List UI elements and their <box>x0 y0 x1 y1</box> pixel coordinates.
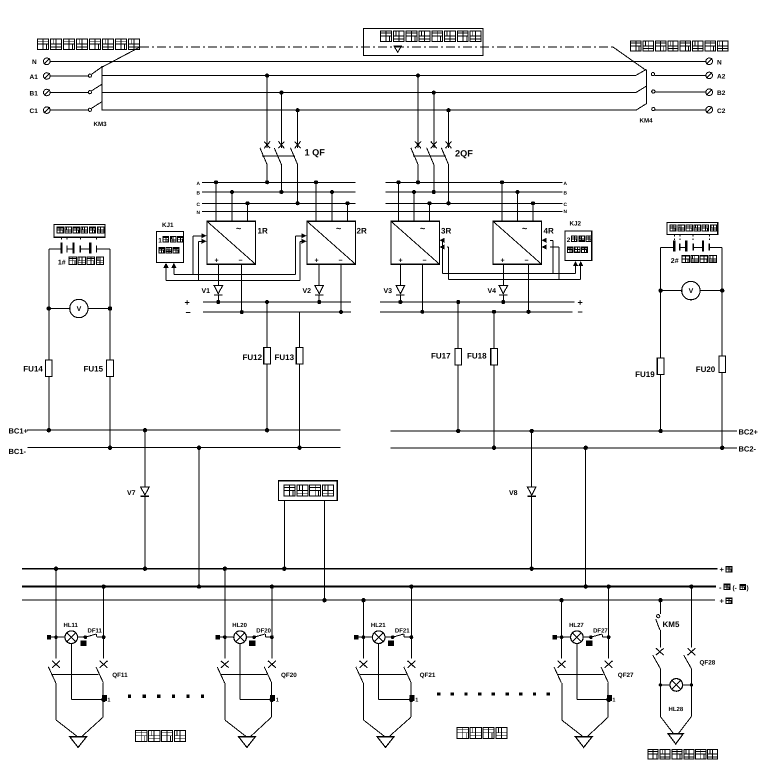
wire - output bus (left group) <box>186 308 352 318</box>
svg-text:HL28: HL28 <box>669 706 684 713</box>
bus -common (-母(-电)) <box>22 583 749 592</box>
svg-text:V8: V8 <box>509 490 518 497</box>
feeder QF20 outgoing triangle <box>239 737 256 748</box>
svg-text:N: N <box>564 209 568 215</box>
bus A (right group) <box>386 181 568 187</box>
svg-text:QF28: QF28 <box>700 660 716 667</box>
control arrow into module 1R (upper) <box>193 233 207 274</box>
switch KM4 phase C2 contact <box>636 104 706 111</box>
fuse FU17 <box>431 300 462 433</box>
label N (right end of shared bus) <box>564 209 568 215</box>
svg-text:QF11: QF11 <box>112 672 128 679</box>
label 4R <box>544 227 554 236</box>
bus C (left group) <box>197 202 356 208</box>
wire control W2 (right group) <box>448 278 580 280</box>
module 3R + output lead <box>399 264 401 285</box>
breaker QF20 plug contacts <box>221 661 276 668</box>
svg-text:A1: A1 <box>30 74 39 81</box>
breaker QF21 plug contacts <box>360 661 416 668</box>
indicator triangle under changeover box <box>394 46 401 52</box>
label KM3 <box>94 121 108 128</box>
fuse FU19 <box>635 358 664 379</box>
module 2R + output lead <box>318 264 320 285</box>
svg-text:FU20: FU20 <box>696 365 716 374</box>
wire N line <box>50 60 706 62</box>
label KJ1 <box>162 222 174 229</box>
svg-text:FU19: FU19 <box>635 370 655 379</box>
wire phase B <box>102 92 636 94</box>
svg-text:QF21: QF21 <box>420 672 436 679</box>
linkage diagonal to KM3 <box>102 47 140 67</box>
terminal B2 <box>706 89 726 97</box>
wire BC2- to negative bus <box>584 446 588 589</box>
terminal A2 <box>706 72 726 80</box>
svg-text:DF27: DF27 <box>593 627 608 634</box>
charger control unit KJ1 (1组充电机单元) <box>157 232 184 263</box>
svg-text:BC2-: BC2- <box>739 445 757 454</box>
svg-text:2QF: 2QF <box>455 149 473 159</box>
svg-text:~: ~ <box>522 224 527 234</box>
breaker 1QF pole outputs to group buses <box>265 165 300 206</box>
battery 2# right leg <box>720 247 724 450</box>
svg-text:+: + <box>185 298 190 308</box>
svg-text:C2: C2 <box>717 108 726 115</box>
svg-text:DF21: DF21 <box>395 627 410 634</box>
svg-text:1R: 1R <box>258 227 268 236</box>
feeder QF21 left pole from bus <box>361 598 365 659</box>
svg-text:KJ2: KJ2 <box>570 221 582 228</box>
fuse FU13 <box>275 312 303 450</box>
feeder QF27 outgoing triangle <box>575 737 592 748</box>
bus A (left group) <box>197 181 356 187</box>
wire control W1 (right group) <box>443 272 576 274</box>
svg-text:V2: V2 <box>303 288 312 295</box>
svg-text:−: − <box>186 308 191 318</box>
terminal E2 (QF11) <box>80 640 86 645</box>
module 3R input taps <box>397 180 432 221</box>
charger control unit KJ2 (2组充电机单元) <box>565 231 592 260</box>
terminal C2 <box>706 107 726 115</box>
terminal E3 (QF20) <box>216 635 220 639</box>
feeder QF11 outgoing triangle <box>70 737 87 748</box>
bus N (shared) <box>197 210 563 216</box>
label 2QF <box>455 149 473 159</box>
feeder QF11 left pole from bus <box>54 567 58 659</box>
svg-text:2#: 2# <box>671 258 679 265</box>
module 4R + output lead <box>502 264 504 285</box>
svg-text:+: + <box>501 257 505 264</box>
terminal N (route 2) <box>706 58 722 66</box>
label: route-1 three-phase AC source (一路三相交流电源) <box>38 39 140 50</box>
dotted separator (control feeders) <box>437 692 550 695</box>
svg-text:DF11: DF11 <box>88 627 103 634</box>
feeder QF11 crossbar <box>52 674 98 676</box>
feeder QF20 crossbar <box>221 674 267 676</box>
battery monitor unit box (1# 电池巡检单元) <box>54 224 105 237</box>
switch KM4 linkage bar <box>645 69 647 104</box>
feeder QF27 right pole from bus <box>606 584 610 658</box>
switch KM3 phase C1 contact <box>50 102 102 112</box>
svg-text:V: V <box>689 288 694 295</box>
bus B (right group) <box>386 191 568 197</box>
bus B (left group) <box>197 191 356 197</box>
label 2#蓄电池组 <box>671 255 717 264</box>
svg-text:V3: V3 <box>384 288 393 295</box>
svg-text:FU13: FU13 <box>275 353 295 362</box>
module 4R - output lead <box>527 264 531 314</box>
module 1R - output lead <box>240 264 244 314</box>
branch right pole <box>689 584 693 647</box>
linkage diagonal to KM4 <box>613 47 646 71</box>
diode V3 <box>384 286 405 305</box>
breaker QF27 blades <box>554 667 634 683</box>
bus BC2- <box>391 445 757 454</box>
control arrow into module 2R (upper) <box>296 233 307 274</box>
terminal E2 (QF21) <box>388 640 394 645</box>
svg-text:~: ~ <box>236 224 241 234</box>
emergency branch funnel <box>660 717 691 734</box>
emergency branch outgoing triangle <box>668 734 683 744</box>
svg-text:A: A <box>197 181 201 187</box>
control arrow into module 3R (lower) <box>440 244 449 279</box>
control arrow into module 4R (lower) <box>542 244 559 279</box>
svg-text:−: − <box>578 307 583 317</box>
lamp HL20 <box>220 622 248 644</box>
svg-text:FU18: FU18 <box>467 352 487 361</box>
switch KM4 phase B2 contact <box>636 86 706 93</box>
control arrow into module 1R (lower) <box>198 239 206 281</box>
terminal E1 (QF20) <box>270 695 279 703</box>
breaker 2QF linkage bar <box>413 155 446 157</box>
lamp HL21 <box>359 622 387 644</box>
switch KM3 phase B1 contact <box>50 84 102 93</box>
svg-text:1: 1 <box>158 238 162 245</box>
lamp HL11 <box>51 622 78 644</box>
feeder QF27 left pole from bus <box>559 598 563 659</box>
bus BC2+ <box>391 427 759 436</box>
svg-text:HL21: HL21 <box>371 622 386 629</box>
feeder QF11 right pole from bus <box>101 584 105 658</box>
svg-text:(-: (- <box>733 585 737 592</box>
diode V2 <box>303 286 324 305</box>
label 事故照明馈出 (emergency lighting output) <box>648 749 718 759</box>
control arrow into module 4R (upper) <box>542 238 553 274</box>
svg-text:C: C <box>564 202 568 208</box>
svg-text:+: + <box>578 298 583 308</box>
label 1QF <box>305 148 326 158</box>
lamp HL27 <box>557 622 585 644</box>
svg-text:C: C <box>197 202 201 208</box>
terminal B1 <box>30 89 51 97</box>
svg-text:BC2+: BC2+ <box>739 427 759 436</box>
label 3R <box>441 227 451 236</box>
breaker 1QF contacts <box>260 142 301 165</box>
label 合闸馈出 (closing output) <box>136 730 186 741</box>
lamp HL21 return wire <box>379 644 414 703</box>
terminal E1 (QF27) <box>607 695 616 703</box>
fuse DF27 <box>583 627 610 639</box>
lamp HL28 <box>659 679 693 713</box>
module 2R input taps <box>314 180 350 221</box>
fuse DF11 <box>78 627 106 639</box>
svg-text:+: + <box>720 565 725 574</box>
battery 2# left leg <box>658 247 662 433</box>
svg-text:N: N <box>197 210 201 216</box>
breaker QF28 plug contacts <box>656 648 695 655</box>
svg-text:C1: C1 <box>30 108 39 115</box>
feeder QF20 outgoing funnel <box>225 683 272 736</box>
terminal E3 (QF21) <box>354 635 358 639</box>
svg-text:2: 2 <box>567 237 571 244</box>
svg-text:KM5: KM5 <box>663 620 680 629</box>
switch KM3 phase A1 contact <box>50 67 102 77</box>
module 1R input taps <box>214 180 250 221</box>
wire phase A <box>102 75 636 77</box>
svg-text:KM4: KM4 <box>640 118 654 125</box>
label KM4 <box>640 118 654 125</box>
svg-text:B2: B2 <box>717 90 726 97</box>
svg-text:−: − <box>239 257 243 264</box>
lamp HL20 return wire <box>240 644 274 703</box>
svg-text:FU14: FU14 <box>23 365 43 374</box>
svg-text:4R: 4R <box>544 227 554 236</box>
bus BC1- <box>9 447 341 456</box>
battery monitor unit box (2# 电池巡检单元) <box>667 223 718 235</box>
bus +closing (+母) <box>22 565 732 574</box>
breaker QF20 blades <box>217 667 297 683</box>
svg-text:V7: V7 <box>127 490 136 497</box>
label 控制馈出 (control output) <box>457 727 507 738</box>
bus C (right group) <box>386 202 568 208</box>
fuse FU14 <box>23 360 52 377</box>
svg-text:3R: 3R <box>441 227 451 236</box>
svg-text:+: + <box>215 257 219 264</box>
breaker 2QF pole outputs to group buses <box>416 165 451 206</box>
wire control W2 (left group) <box>166 280 300 282</box>
svg-text:B: B <box>564 191 568 197</box>
feeder QF21 crossbar <box>360 674 407 676</box>
svg-text:+: + <box>315 257 319 264</box>
terminal E2 (QF27) <box>586 640 592 645</box>
diode V4 <box>488 286 508 305</box>
terminal N (route 1) <box>32 58 50 66</box>
changeover box (两路交流自动切换) <box>364 28 483 55</box>
terminal E2 (QF20) <box>249 640 255 645</box>
diode V8 <box>509 429 536 571</box>
diode V1 <box>202 286 223 305</box>
switch KM3 linkage bar <box>101 66 103 110</box>
fuse FU18 <box>467 310 497 450</box>
terminal A1 <box>30 73 51 81</box>
svg-text:−: − <box>339 257 343 264</box>
wire - output bus (right group) <box>380 307 583 317</box>
terminal E1 (QF21) <box>410 695 419 703</box>
fuse DF20 <box>246 627 273 639</box>
breaker QF11 plug contacts <box>52 661 107 668</box>
battery string 2#蓄电池组 <box>661 234 723 251</box>
label KJ2 <box>570 221 582 228</box>
breaker QF11 blades <box>48 667 128 683</box>
wire + output bus (right group) <box>380 298 583 308</box>
svg-text:~: ~ <box>336 224 341 234</box>
svg-text:QF27: QF27 <box>618 672 634 679</box>
module 1R + output lead <box>217 264 219 285</box>
feeder QF27 outgoing funnel <box>562 683 608 736</box>
svg-text:V4: V4 <box>488 288 497 295</box>
control arrow into module 2R (lower) <box>300 239 307 281</box>
wire BC1- to negative bus <box>197 446 201 589</box>
wire + output bus (left group) <box>185 298 352 308</box>
voltmeter V (1# battery) <box>47 299 113 317</box>
voltage-drop unit right lead <box>322 500 326 602</box>
terminal E3 (QF27) <box>552 635 556 639</box>
breaker QF27 plug contacts <box>558 661 613 668</box>
dotted separator (closing feeders) <box>128 695 204 698</box>
feeder QF21 right pole from bus <box>409 584 413 658</box>
svg-text:BC1-: BC1- <box>9 447 27 456</box>
wire phase C <box>102 109 636 111</box>
terminal C1 <box>30 107 51 115</box>
fuse DF21 <box>385 627 413 639</box>
svg-text:KM3: KM3 <box>94 121 108 128</box>
fuse FU12 <box>243 300 271 432</box>
svg-text:~: ~ <box>420 224 425 234</box>
label 1R <box>258 227 268 236</box>
svg-text:HL27: HL27 <box>569 622 584 629</box>
dash-dot interlock linkage line <box>140 46 613 48</box>
lamp HL11 return wire <box>71 644 106 703</box>
battery 1# right leg <box>108 249 112 450</box>
feeder QF21 outgoing funnel <box>364 683 411 736</box>
rectifier module 2R <box>307 221 356 264</box>
lamp HL27 return wire <box>577 644 611 703</box>
diode V7 <box>127 428 149 571</box>
breaker 1QF linkage bar <box>262 155 295 157</box>
voltmeter V (2# battery) <box>658 281 724 299</box>
svg-text:1: 1 <box>415 698 418 704</box>
terminal E3 (QF11) <box>47 635 51 639</box>
breaker QF28 blades <box>653 655 716 668</box>
breaker 2QF pole taps from AC lines <box>416 74 451 149</box>
feeder QF20 left pole from bus <box>223 567 227 659</box>
svg-text:N: N <box>717 59 722 66</box>
breaker 1QF pole taps from AC lines <box>265 74 300 149</box>
svg-text:DF20: DF20 <box>256 627 271 634</box>
bus BC1+ <box>9 427 341 436</box>
label: route-2 three-phase AC source (二路三相交流电源) <box>631 41 728 51</box>
svg-text:FU15: FU15 <box>84 365 104 374</box>
svg-text:2R: 2R <box>357 227 367 236</box>
battery 1# left leg <box>47 249 51 432</box>
contactor KM5 branch left pole <box>656 598 680 648</box>
feeder QF20 right pole from bus <box>270 584 274 658</box>
control arrow into module 3R (upper) <box>440 238 445 274</box>
rectifier module 3R <box>391 221 440 264</box>
svg-text:FU12: FU12 <box>243 353 263 362</box>
svg-text:−: − <box>423 257 427 264</box>
wire control W1 (left group) <box>174 273 296 275</box>
svg-text:V1: V1 <box>202 288 211 295</box>
breaker QF21 blades <box>356 667 436 683</box>
label 2R <box>357 227 367 236</box>
breaker 2QF contacts <box>411 142 452 165</box>
KJ1 sense arrows (up into box) <box>163 263 176 281</box>
fuse FU15 <box>84 360 114 377</box>
battery string 1#蓄电池组 <box>49 237 110 253</box>
svg-text:N: N <box>32 59 37 66</box>
voltage-drop unit box (降压单元) <box>278 481 337 501</box>
voltage-drop unit left lead <box>282 500 286 571</box>
svg-text:V: V <box>77 306 82 313</box>
svg-text:1: 1 <box>276 698 279 704</box>
rectifier module 4R <box>493 221 542 264</box>
label 1#蓄电池组 <box>58 257 104 266</box>
module 2R - output lead <box>339 264 343 314</box>
svg-text:1 QF: 1 QF <box>305 148 326 158</box>
svg-text:1: 1 <box>107 698 110 704</box>
svg-text:FU17: FU17 <box>431 352 451 361</box>
svg-text:HL20: HL20 <box>232 622 247 629</box>
svg-text:1: 1 <box>612 698 615 704</box>
module 3R - output lead <box>420 264 424 314</box>
svg-text:−: − <box>525 257 529 264</box>
KJ2 sense arrows (up into box) <box>573 261 583 279</box>
svg-text:1#: 1# <box>58 260 66 267</box>
svg-text:B1: B1 <box>30 91 39 98</box>
terminal E1 (QF11) <box>102 695 111 703</box>
feeder QF27 crossbar <box>558 674 604 676</box>
switch KM4 phase A2 contact <box>636 69 706 75</box>
branch left lower wire <box>659 668 661 716</box>
rectifier module 1R <box>207 221 256 264</box>
svg-text:BC1+: BC1+ <box>9 427 29 436</box>
svg-text:B: B <box>197 191 201 197</box>
svg-text:HL11: HL11 <box>64 622 79 629</box>
svg-text:+: + <box>399 257 403 264</box>
svg-text:A2: A2 <box>717 73 726 80</box>
branch right lower wire <box>690 668 692 716</box>
fuse FU20 <box>696 356 726 374</box>
svg-text:): ) <box>747 585 749 592</box>
bus +control (+电) <box>22 597 732 606</box>
svg-text:A: A <box>564 181 568 187</box>
module 4R input taps <box>500 180 535 221</box>
feeder QF21 outgoing triangle <box>377 737 394 748</box>
svg-text:KJ1: KJ1 <box>162 222 174 229</box>
svg-text:+: + <box>720 597 725 606</box>
svg-text:QF20: QF20 <box>281 672 297 679</box>
feeder QF11 outgoing funnel <box>56 683 103 736</box>
